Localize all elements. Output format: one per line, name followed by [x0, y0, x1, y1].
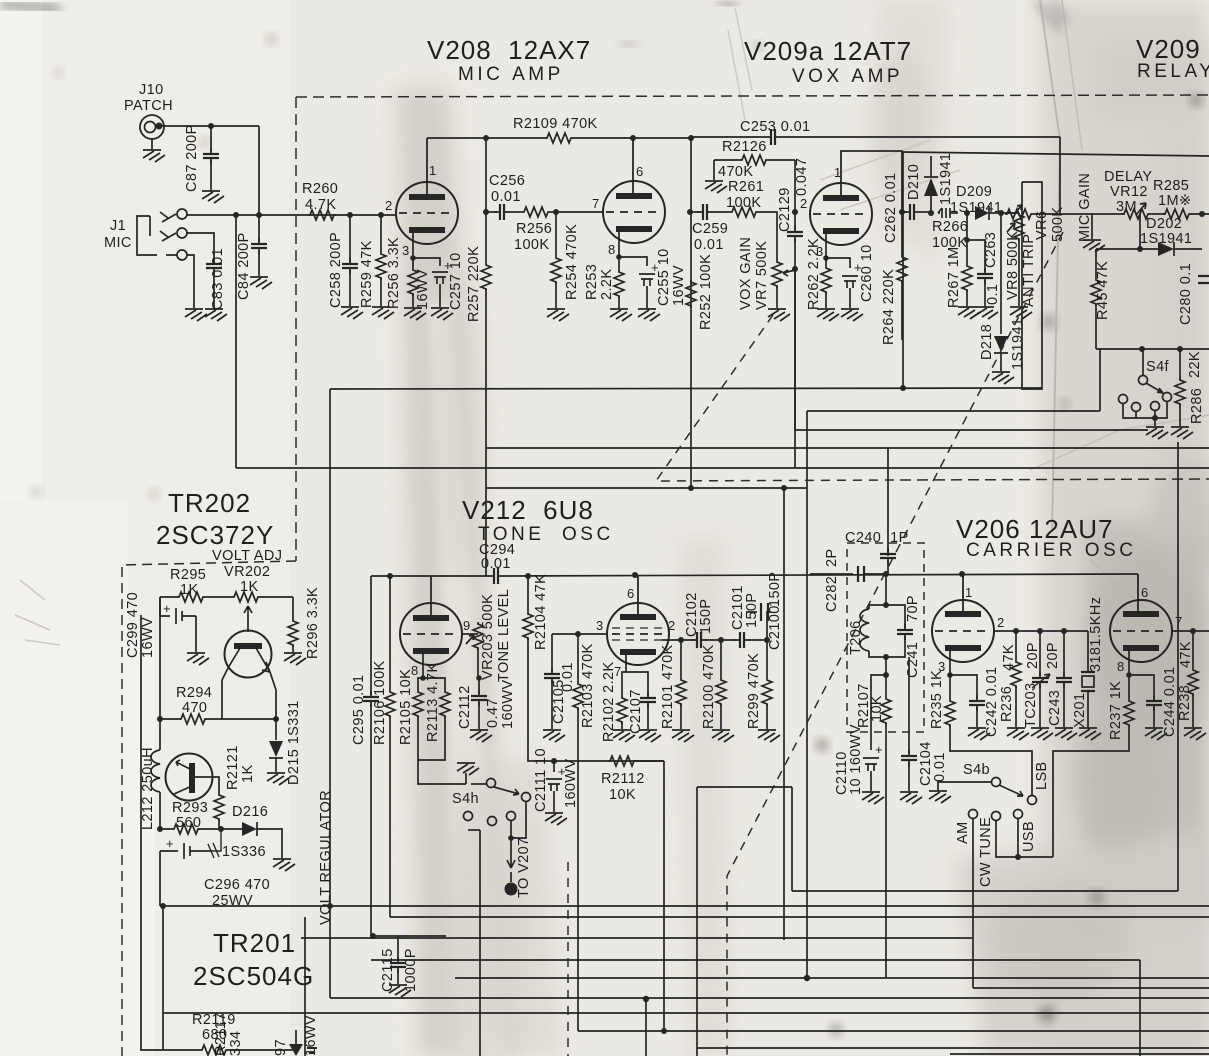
- narrow linkage box: [1022, 182, 1042, 389]
- bus y978: [455, 977, 1209, 979]
- svg-text:R261: R261: [728, 179, 764, 195]
- svg-text:D202: D202: [1146, 216, 1182, 232]
- capacitor C299 470 16WV: [160, 597, 170, 616]
- svg-text:USB: USB: [1021, 821, 1037, 852]
- capacitor C259 0.01: [687, 209, 693, 215]
- svg-text:1S1941: 1S1941: [938, 153, 954, 205]
- wire x646 drop: [645, 999, 647, 1056]
- wire x795 drop to rail B: [794, 269, 796, 468]
- svg-text:R294: R294: [176, 685, 212, 701]
- svg-text:2: 2: [668, 618, 675, 633]
- svg-text:D215 1S331: D215 1S331: [286, 700, 302, 785]
- svg-text:150P: 150P: [767, 572, 783, 607]
- capacitor C2112 0.47 160WV: [476, 675, 482, 681]
- svg-text:0.47: 0.47: [485, 698, 501, 728]
- wire x792 drop to bus: [791, 787, 793, 891]
- svg-text:MIC: MIC: [104, 235, 132, 251]
- svg-text:0.01: 0.01: [560, 662, 576, 692]
- wire grid row V212b: [552, 633, 607, 635]
- transistor TR202: [225, 631, 272, 678]
- wire pin2 row: [662, 639, 693, 641]
- svg-text:0.01: 0.01: [694, 237, 724, 253]
- svg-text:R236: R236: [999, 686, 1015, 722]
- potentiometer VR7 500K VOX GAIN: [772, 260, 782, 288]
- svg-text:LSB: LSB: [1034, 761, 1050, 790]
- svg-text:MIC GAIN: MIC GAIN: [1077, 173, 1093, 242]
- svg-text:R256: R256: [516, 221, 552, 237]
- node at C258: [347, 212, 353, 218]
- svg-text:6: 6: [627, 586, 634, 601]
- wire x480 drop: [479, 830, 481, 1056]
- potentiometer VR6 500K (mic gain): [1007, 212, 1019, 214]
- svg-text:D209: D209: [956, 184, 992, 200]
- capacitor C242 0.01: [950, 675, 977, 699]
- resistor R237 1K: [1126, 672, 1132, 678]
- creases right: [1040, 0, 1060, 530]
- capacitor C2115 1000P: [371, 935, 446, 937]
- resistor R259 47K: [380, 215, 382, 252]
- svg-text:R237 1K: R237 1K: [1108, 681, 1124, 740]
- svg-text:1: 1: [965, 585, 972, 600]
- capacitor C262 0.01: [902, 211, 906, 213]
- wire relay row: [1096, 348, 1180, 350]
- diode fragment bottom: [289, 1044, 303, 1056]
- capacitor C241 70P: [886, 605, 905, 628]
- resistor R256 100K: [510, 211, 522, 213]
- capacitor C2104 0.01: [908, 657, 910, 754]
- svg-text:1000P: 1000P: [403, 948, 419, 992]
- diode D210 1S1941: [928, 210, 934, 216]
- svg-text:R2112: R2112: [601, 771, 645, 787]
- tube V212a triode: [400, 603, 462, 665]
- svg-text:V209a 12AT7: V209a 12AT7: [744, 36, 912, 66]
- capacitor C260 10: [826, 258, 850, 268]
- svg-text:R295: R295: [170, 567, 206, 583]
- bus y938: [301, 937, 972, 939]
- svg-text:R2113 4.7K: R2113 4.7K: [425, 662, 441, 742]
- wire x784 long drop: [783, 488, 785, 940]
- potentiometer VR8 500K ANTI TRIP: [1001, 212, 1019, 214]
- tube V206a triode: [932, 600, 994, 662]
- svg-text:2SC372Y: 2SC372Y: [156, 520, 274, 550]
- svg-text:C2111 10: C2111 10: [533, 748, 549, 812]
- resistor R252 100K: [686, 280, 696, 308]
- resistor R2106 100K: [389, 576, 391, 690]
- svg-text:C295 0.01: C295 0.01: [351, 674, 367, 745]
- wire vox return y430: [795, 269, 1148, 430]
- wire plate V208a to top rail: [427, 137, 486, 139]
- tube V209a triode: [810, 183, 872, 245]
- svg-text:C241: C241: [905, 642, 921, 678]
- bus y1032: [578, 1030, 1209, 1032]
- diode D218 1S1941: [1000, 213, 1002, 334]
- wire AM down: [972, 819, 974, 988]
- capacitor C2101 150P: [705, 639, 736, 641]
- svg-text:3: 3: [596, 618, 603, 633]
- bus y1054: [950, 1053, 1209, 1055]
- svg-text:20P: 20P: [1025, 642, 1041, 669]
- svg-text:C299 470: C299 470: [125, 592, 141, 658]
- svg-text:C259: C259: [692, 221, 728, 237]
- svg-text:0.047: 0.047: [794, 158, 810, 196]
- wire R252 drop: [690, 138, 692, 488]
- wire volt-adj row: [160, 596, 293, 598]
- svg-text:R2117: R2117: [213, 1012, 229, 1056]
- svg-text:1S1941: 1S1941: [1140, 231, 1192, 247]
- svg-text:R235 1K: R235 1K: [929, 670, 945, 729]
- svg-text:1: 1: [834, 165, 841, 180]
- wire relay left drop: [902, 152, 904, 388]
- wire TR202 emitter down-left: [222, 668, 276, 690]
- svg-text:R2102 2.2K: R2102 2.2K: [601, 661, 617, 742]
- wire kathode R2104 junction row: [528, 760, 664, 761]
- svg-text:100K: 100K: [726, 195, 761, 211]
- resistor R257 220K: [483, 209, 489, 215]
- bus y1013: [163, 1012, 1209, 1014]
- resistor R299 470K: [766, 640, 768, 678]
- svg-text:+: +: [875, 742, 883, 757]
- svg-text:S4f: S4f: [1146, 359, 1170, 375]
- svg-text:J10: J10: [139, 82, 164, 98]
- svg-text:PATCH: PATCH: [124, 98, 173, 114]
- transistor TR201 (regulator series): [166, 754, 213, 801]
- svg-text:C263: C263: [983, 232, 999, 268]
- wire V212 top rail: [371, 574, 1138, 576]
- svg-text:7: 7: [592, 196, 599, 211]
- svg-text:C280 0.1: C280 0.1: [1178, 263, 1194, 325]
- resistor R238 47K: [1192, 631, 1194, 668]
- svg-text:R45 47K: R45 47K: [1095, 261, 1111, 320]
- potentiometer VR203 500K TONE LEVEL: [462, 633, 478, 635]
- resistor R2113 4.7K: [423, 678, 445, 690]
- svg-text:1S336: 1S336: [222, 844, 266, 860]
- svg-text:0.01: 0.01: [481, 556, 511, 572]
- svg-text:150P: 150P: [744, 593, 760, 628]
- svg-text:VR12: VR12: [1110, 184, 1148, 200]
- resistor R2121 1K: [213, 777, 219, 793]
- capacitor (electrolytic near 1S336): [160, 843, 212, 859]
- bus y891: [792, 890, 1178, 892]
- svg-text:TONE LEVEL: TONE LEVEL: [496, 589, 512, 682]
- svg-text:2SC504G: 2SC504G: [193, 961, 314, 991]
- node at R259: [378, 212, 384, 218]
- svg-text:8: 8: [1117, 659, 1124, 674]
- svg-text:R256 3.3K: R256 3.3K: [386, 237, 402, 309]
- svg-text:0.01: 0.01: [491, 189, 521, 205]
- svg-text:1: 1: [429, 163, 436, 178]
- svg-text:3M: 3M: [1116, 199, 1137, 215]
- resistor R253 2.2K: [616, 254, 622, 260]
- svg-text:C257 10: C257 10: [448, 252, 464, 310]
- resistor R2104 47K: [527, 576, 529, 612]
- svg-text:100K: 100K: [514, 237, 549, 253]
- svg-text:470: 470: [182, 700, 207, 716]
- svg-text:R296 3.3K: R296 3.3K: [305, 587, 321, 659]
- svg-text:6: 6: [636, 164, 643, 179]
- svg-text:R299 470K: R299 470K: [746, 653, 762, 729]
- wire mid rail B drop left: [235, 215, 237, 468]
- wire x163 drop: [162, 906, 164, 1050]
- resistor R236 47K: [1015, 631, 1017, 660]
- svg-text:C2107: C2107: [628, 689, 644, 734]
- svg-text:47K: 47K: [1001, 644, 1017, 671]
- svg-text:R285: R285: [1153, 178, 1189, 194]
- wire y491 link: [486, 487, 807, 489]
- diode D215 1S331: [275, 719, 277, 740]
- wire main rail drop at x1060: [1059, 137, 1061, 214]
- wire x1140 drop: [1139, 960, 1141, 1056]
- svg-text:DELAY: DELAY: [1104, 169, 1152, 185]
- transformer T206: [883, 602, 889, 608]
- tube V206b triode: [1110, 600, 1172, 662]
- svg-text:C282: C282: [824, 576, 840, 612]
- resistor R2103 470K: [577, 634, 579, 682]
- dashed gang link VR7: [656, 315, 900, 481]
- resistor R45 47K: [1096, 249, 1140, 278]
- svg-text:C83 0.01: C83 0.01: [210, 248, 226, 310]
- svg-text:R264 220K: R264 220K: [881, 269, 897, 345]
- wire CW TUNE / USB join: [996, 819, 1053, 857]
- svg-text:2.2K: 2.2K: [599, 269, 615, 300]
- bus y960: [371, 959, 1140, 961]
- svg-text:C2115: C2115: [380, 948, 396, 992]
- svg-text:10 160WV: 10 160WV: [848, 724, 864, 795]
- svg-text:R267 1M: R267 1M: [946, 246, 962, 308]
- inductor L212 250uH: [159, 719, 161, 750]
- wire x305 drop: [304, 917, 306, 1056]
- svg-text:3: 3: [402, 243, 409, 258]
- svg-text:TR202: TR202: [168, 488, 251, 518]
- svg-text:S4h: S4h: [452, 791, 479, 807]
- svg-text:1K: 1K: [240, 579, 259, 595]
- dashed boundary y480: [900, 479, 1209, 480]
- ground mic gain: [1033, 214, 1092, 239]
- resistor R264 220K: [901, 212, 903, 255]
- wire mid rail B: [236, 467, 1209, 469]
- capacitor C257 10 16WV (cathode bypass): [413, 258, 440, 266]
- svg-text:R293: R293: [172, 800, 208, 816]
- resistor R256 3.3K (cathode): [412, 258, 414, 268]
- crystal X201 3181.5KHz: [1087, 631, 1089, 672]
- svg-text:R238: R238: [1177, 685, 1193, 721]
- terminal TO V207: [505, 883, 518, 896]
- wire R2112 to drop: [636, 761, 664, 1031]
- wire x1178 riser: [1177, 442, 1179, 891]
- dashed box T206: [847, 543, 924, 732]
- resistor R266 100K (series): [938, 208, 958, 218]
- svg-text:470K: 470K: [718, 164, 753, 180]
- svg-text:0.01: 0.01: [932, 752, 948, 782]
- svg-text:R286: R286: [1189, 388, 1205, 424]
- svg-text:C262 0.01: C262 0.01: [883, 172, 899, 243]
- ground under J10: [151, 139, 153, 149]
- svg-text:CARRIER OSC: CARRIER OSC: [966, 540, 1136, 561]
- capacitor C255 10 16WV: [619, 257, 647, 266]
- wire mic hot to grid line: [187, 214, 395, 216]
- svg-text:TC203: TC203: [1023, 682, 1039, 728]
- svg-text:R262 2.2K: R262 2.2K: [806, 238, 822, 310]
- svg-text:R2101 470K: R2101 470K: [660, 644, 676, 729]
- svg-text:1K: 1K: [240, 764, 256, 783]
- resistor R254 470K: [555, 212, 557, 256]
- svg-text:C87 200P: C87 200P: [184, 124, 200, 192]
- svg-text:160WV: 160WV: [500, 679, 516, 729]
- svg-text:R266: R266: [932, 219, 968, 235]
- ground mic sleeve: [187, 255, 194, 308]
- wire J10 to C87 node: [162, 125, 259, 127]
- svg-text:C296 470: C296 470: [204, 877, 270, 893]
- svg-text:C256: C256: [489, 173, 525, 189]
- svg-text:R253: R253: [584, 264, 600, 300]
- wire mid rail A drop left: [329, 389, 331, 998]
- svg-text:R2104 47K: R2104 47K: [533, 574, 549, 650]
- dashed gang link VR6 to S4b: [727, 232, 1063, 1056]
- wire C87 node down to mic line: [258, 126, 260, 215]
- resistor R235 1K: [947, 672, 953, 678]
- svg-text:2P: 2P: [824, 548, 840, 567]
- resistor R2100 470K: [720, 640, 722, 678]
- wire plate rail corner to V206b: [1137, 574, 1139, 614]
- resistor R262 2.2K: [823, 255, 829, 261]
- svg-text:V209: V209: [1136, 34, 1201, 64]
- capacitor C2105 0.01: [551, 634, 553, 672]
- svg-text:160WV: 160WV: [563, 758, 579, 808]
- capacitor C258 200P: [349, 215, 351, 262]
- wire x697-x664 joints: [661, 1028, 667, 1034]
- wire AM corner: [973, 987, 1209, 989]
- svg-text:R2103 470K: R2103 470K: [580, 643, 596, 728]
- wire carrier feed y448: [486, 448, 1209, 556]
- wire box V207 corner: [697, 787, 792, 1056]
- top-center crease band: [878, 0, 948, 260]
- svg-text:S4b: S4b: [963, 762, 990, 778]
- svg-text:X201: X201: [1072, 693, 1088, 728]
- svg-text:V208 12AX7: V208 12AX7: [427, 35, 591, 65]
- resistor R296 3.3K: [292, 597, 294, 619]
- svg-text:C258 200P: C258 200P: [328, 232, 344, 308]
- svg-text:C244 0.01: C244 0.01: [1162, 666, 1178, 737]
- tube V212b pentode: [607, 603, 669, 665]
- wire relay return y411: [807, 349, 1100, 978]
- svg-text:8: 8: [608, 242, 615, 257]
- svg-text:C260 10: C260 10: [859, 244, 875, 302]
- resistor R2101 470K: [680, 640, 682, 678]
- node pin3: [410, 255, 416, 261]
- wire grid row V206: [994, 630, 1088, 632]
- svg-text:VR7 500K: VR7 500K: [754, 241, 770, 310]
- capacitor C263 0.1: [967, 240, 985, 272]
- svg-text:C2112: C2112: [457, 685, 473, 729]
- dashed drop x568: [567, 862, 569, 1056]
- svg-text:C2129: C2129: [777, 187, 793, 232]
- svg-text:VR203 500K: VR203 500K: [480, 594, 496, 680]
- svg-text:VR8 500K: VR8 500K: [1005, 231, 1021, 300]
- dashed unit boundary left: [295, 97, 297, 561]
- svg-text:6: 6: [1141, 585, 1148, 600]
- dashed volt-adj corner: [122, 561, 296, 1056]
- svg-text:L212 250uH: L212 250uH: [140, 747, 156, 830]
- svg-text:C242 0.01: C242 0.01: [984, 666, 1000, 737]
- svg-text:2: 2: [997, 615, 1004, 630]
- bus y999: [330, 997, 1209, 999]
- svg-text:R2109 470K: R2109 470K: [513, 116, 598, 132]
- svg-text:97: 97: [273, 1039, 289, 1056]
- svg-text:R254 470K: R254 470K: [564, 224, 580, 300]
- svg-text:J1: J1: [110, 218, 126, 234]
- svg-text:10K: 10K: [869, 695, 885, 722]
- svg-text:9: 9: [463, 618, 470, 633]
- node D209 out: [998, 210, 1004, 216]
- bus y917: [390, 916, 1209, 918]
- svg-text:RELAY: RELAY: [1137, 61, 1209, 82]
- wire S4b common to ground: [938, 782, 991, 790]
- capacitor C2110 10 160WV: [871, 675, 886, 750]
- svg-text:R2126: R2126: [722, 139, 767, 155]
- svg-text:D210: D210: [906, 164, 922, 200]
- svg-text:2: 2: [800, 196, 807, 211]
- wire C295 column: [370, 576, 372, 695]
- capacitor C2107: [626, 672, 648, 696]
- capacitor C243 20P: [1063, 631, 1065, 676]
- wire C280/R286 to edge: [1180, 348, 1209, 350]
- svg-text:C243: C243: [1047, 690, 1063, 726]
- right side aged area: [1042, 0, 1209, 1056]
- top edge dark marks: [0, 4, 60, 9]
- svg-text:500K: 500K: [1050, 207, 1066, 242]
- svg-text:TO V207: TO V207: [516, 837, 532, 898]
- capacitor C83 0.01: [187, 233, 214, 262]
- capacitor C2129 0.047: [794, 160, 796, 230]
- svg-text:R252 100K: R252 100K: [698, 254, 714, 330]
- svg-text:R260: R260: [302, 181, 338, 197]
- svg-text:D216: D216: [232, 804, 268, 820]
- svg-text:47K: 47K: [1178, 641, 1194, 668]
- svg-text:R2100 470K: R2100 470K: [701, 644, 717, 729]
- wire S4h to TO V207: [511, 801, 526, 838]
- wire left rail x160: [159, 597, 161, 719]
- svg-text:150P: 150P: [698, 599, 714, 634]
- svg-text:334: 334: [228, 1031, 244, 1056]
- svg-text:TR201: TR201: [213, 928, 296, 958]
- svg-text:1M※: 1M※: [1158, 193, 1192, 209]
- svg-text:3181.5KHz: 3181.5KHz: [1088, 597, 1104, 672]
- svg-text:2: 2: [385, 198, 392, 213]
- svg-text:VOX GAIN: VOX GAIN: [738, 237, 754, 310]
- svg-text:C255 10: C255 10: [656, 248, 672, 306]
- resistor R2107 10K: [885, 675, 887, 697]
- tube V208a triode: [396, 182, 458, 244]
- resistor R2105 10K: [420, 675, 426, 681]
- resistor R267 1M: [966, 213, 968, 240]
- capacitor C84 200P: [258, 215, 260, 242]
- svg-text:V212 6U8: V212 6U8: [462, 495, 594, 525]
- bus y906: [163, 905, 1209, 907]
- wire mid rail A: [330, 388, 1042, 389]
- svg-text:0.1: 0.1: [985, 284, 1001, 305]
- svg-text:1S1941: 1S1941: [1010, 318, 1026, 370]
- wire S4f feed from relay box: [1142, 349, 1144, 376]
- center-left scan crease band: [398, 88, 520, 1056]
- trimmer TC203 20P: [1039, 631, 1041, 676]
- relay unit box top edge: [903, 152, 1209, 156]
- svg-text:C84 200P: C84 200P: [236, 232, 252, 300]
- svg-text:VR202: VR202: [224, 564, 270, 580]
- svg-text:R2121: R2121: [225, 745, 241, 790]
- tube V208b triode: [603, 181, 665, 243]
- svg-text:10K: 10K: [609, 787, 636, 803]
- svg-text:16WV: 16WV: [415, 269, 431, 310]
- svg-text:AM: AM: [955, 821, 971, 844]
